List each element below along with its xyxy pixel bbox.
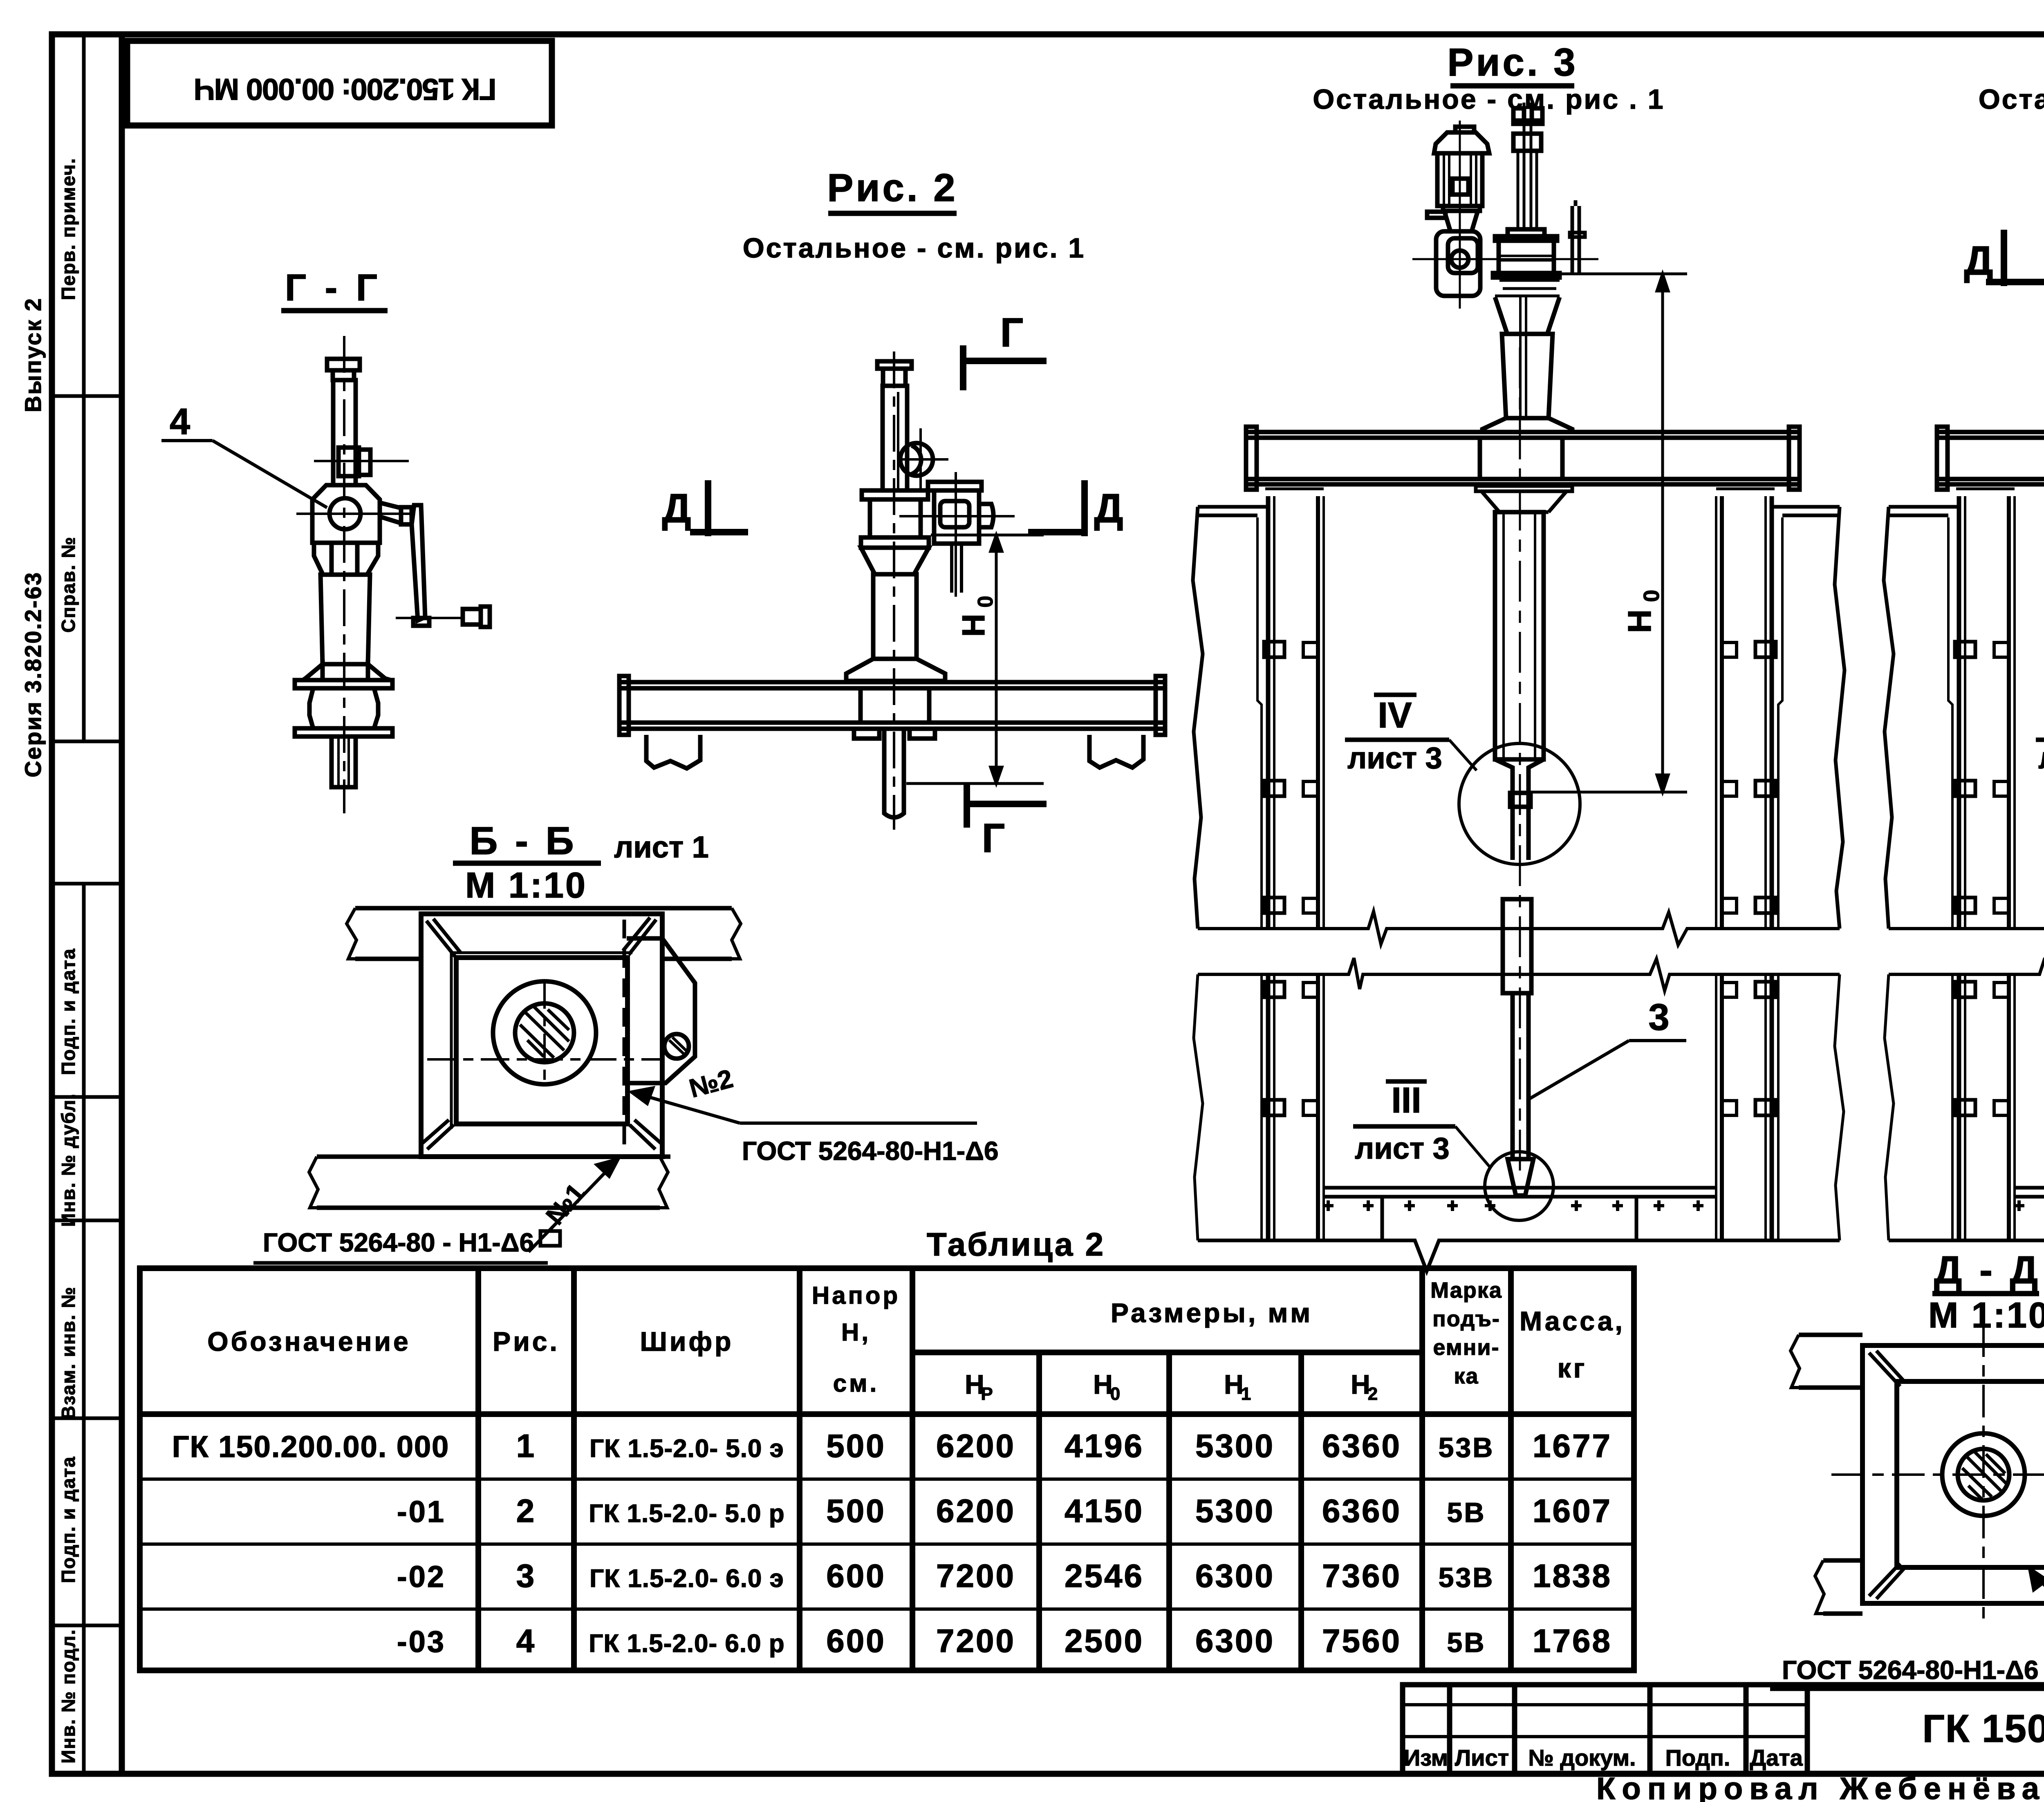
svg-text:Рис. 2: Рис. 2 — [827, 166, 957, 210]
svg-text:Изм: Изм — [1404, 1745, 1448, 1771]
table 2 data rows — [172, 1428, 1612, 1659]
Ris4 walls upper section — [1948, 489, 2044, 929]
svg-text:53В: 53В — [1439, 1432, 1495, 1463]
B-B crosshair — [427, 980, 662, 1087]
svg-text:Рис. 3: Рис. 3 — [1447, 40, 1578, 84]
D-D corner weld strokes — [1869, 1351, 2044, 1599]
svg-text:Остальное - см. рис. 1: Остальное - см. рис. 1 — [1979, 84, 2044, 115]
svg-text:4196: 4196 — [1065, 1428, 1144, 1464]
svg-text:-02: -02 — [397, 1560, 446, 1594]
svg-text:Дата: Дата — [1750, 1745, 1803, 1771]
svg-text:ГК 1.5-2.0- 6.0 э: ГК 1.5-2.0- 6.0 э — [589, 1565, 784, 1593]
svg-text:1768: 1768 — [1533, 1623, 1612, 1659]
svg-text:Подп. и дата: Подп. и дата — [58, 1456, 79, 1583]
svg-text:кг: кг — [1558, 1353, 1587, 1383]
svg-text:-01: -01 — [397, 1495, 446, 1529]
svg-text:М 1:10: М 1:10 — [1928, 1295, 2044, 1335]
svg-text:Д: Д — [662, 486, 691, 531]
D-D top slab — [1791, 1335, 2044, 1388]
Ris3 mid break band — [1198, 911, 1840, 991]
svg-text:Марка: Марка — [1430, 1278, 1502, 1303]
svg-text:Д: Д — [1964, 238, 1993, 284]
svg-text:5300: 5300 — [1195, 1428, 1275, 1464]
svg-text:Г: Г — [1000, 310, 1024, 356]
svg-text:6300: 6300 — [1195, 1558, 1275, 1594]
G-G valve centerline — [343, 336, 345, 813]
Ris3 beam — [1246, 427, 1800, 490]
B-B hole hatch — [520, 1006, 569, 1058]
D-D crosshair — [1831, 1324, 2044, 1625]
svg-text:4: 4 — [170, 401, 190, 442]
svg-text:ГК 1.5-2.0- 6.0 р: ГК 1.5-2.0- 6.0 р — [589, 1630, 784, 1658]
Ris2 valve centerline — [893, 351, 895, 830]
Ris3 bonnet and column — [1482, 297, 1572, 432]
svg-text:6200: 6200 — [936, 1493, 1015, 1529]
svg-text:6300: 6300 — [1195, 1623, 1275, 1659]
svg-text:Копировал Жебенёва: Копировал Жебенёва — [1596, 1771, 2044, 1802]
svg-text:1: 1 — [516, 1428, 536, 1464]
Ris2 H0 dimension — [906, 535, 1044, 783]
B-B square flange — [421, 914, 662, 1157]
svg-text:Подп. и дата: Подп. и дата — [58, 948, 79, 1075]
title block labels — [1404, 1745, 1803, 1771]
svg-text:5В: 5В — [1447, 1627, 1486, 1658]
D-D hole hatch — [1962, 1452, 2006, 1499]
svg-text:Таблица 2: Таблица 2 — [927, 1226, 1105, 1263]
svg-text:Д - Д: Д - Д — [1934, 1248, 2041, 1292]
svg-text:Н: Н — [1621, 609, 1658, 633]
Ris3 walls upper section — [1257, 489, 1782, 929]
Ris4 beam — [1937, 427, 2044, 490]
D-D leader N3 — [2030, 1569, 2044, 1693]
B-B side plate — [627, 938, 695, 1083]
svg-text:1: 1 — [1241, 1384, 1253, 1404]
svg-text:ГК 150.200.00. 000: ГК 150.200.00. 000 — [172, 1430, 450, 1464]
B-B weld arrow N1 — [529, 1159, 618, 1252]
svg-text:Остальное - см. рис . 1: Остальное - см. рис . 1 — [1313, 84, 1665, 115]
svg-text:6360: 6360 — [1322, 1428, 1401, 1464]
svg-text:Инв. № подл.: Инв. № подл. — [58, 1629, 79, 1763]
Ris2 valve — [846, 361, 1015, 681]
svg-text:ГК 1.5-2.0- 5.0 э: ГК 1.5-2.0- 5.0 э — [589, 1435, 784, 1463]
svg-text:III: III — [1391, 1080, 1421, 1120]
svg-text:Г - Г: Г - Г — [285, 267, 381, 309]
svg-text:см.: см. — [833, 1370, 879, 1397]
view G-G section — [161, 267, 490, 813]
view Ris.4 — [1884, 40, 2044, 1271]
svg-text:1607: 1607 — [1533, 1493, 1612, 1529]
G-G valve body — [295, 359, 490, 787]
B-B weld arrow N2 — [632, 1088, 977, 1123]
svg-text:0: 0 — [1110, 1384, 1123, 1404]
svg-text:4150: 4150 — [1065, 1493, 1144, 1529]
svg-text:Г: Г — [982, 815, 1005, 861]
svg-text:7200: 7200 — [936, 1623, 1015, 1659]
svg-text:Масса,: Масса, — [1520, 1306, 1625, 1336]
svg-text:подъ-: подъ- — [1432, 1307, 1500, 1331]
svg-text:ГК 1.5-2.0- 5.0 р: ГК 1.5-2.0- 5.0 р — [589, 1500, 784, 1528]
Ris2 brackets below beam — [646, 735, 1143, 768]
svg-text:Шифр: Шифр — [640, 1326, 734, 1357]
svg-text:Лист: Лист — [1455, 1745, 1509, 1771]
svg-text:ГК 150. 200. 00. 000 МЧ: ГК 150. 200. 00. 000 МЧ — [1922, 1707, 2044, 1751]
svg-text:ГОСТ 5264-80-Н1-Δ6: ГОСТ 5264-80-Н1-Δ6 — [1782, 1655, 2039, 1685]
D-D bottom slab — [1815, 1560, 2044, 1614]
Ris3 detail circle III — [1485, 1152, 1553, 1220]
svg-text:Обозначение: Обозначение — [207, 1326, 410, 1357]
B-B corner weld strokes — [422, 918, 661, 1149]
svg-text:53В: 53В — [1439, 1562, 1495, 1593]
B-B top slab — [347, 908, 741, 959]
svg-text:Инв. № дубл.: Инв. № дубл. — [58, 1093, 79, 1227]
svg-text:лист 3: лист 3 — [1355, 1131, 1450, 1165]
svg-text:3: 3 — [516, 1558, 536, 1594]
svg-text:1677: 1677 — [1533, 1428, 1612, 1464]
svg-text:5300: 5300 — [1195, 1493, 1275, 1529]
top-left inverted stamp box — [127, 41, 552, 125]
Ris3 H0 dimension — [1532, 274, 1687, 792]
B-B center hole — [493, 981, 596, 1084]
svg-text:2: 2 — [1368, 1384, 1380, 1404]
svg-text:Н,: Н, — [841, 1318, 871, 1346]
Ris2 beam — [619, 676, 1165, 739]
D-D center hole — [1942, 1433, 2025, 1516]
Ris3 stem centerline — [1519, 347, 1521, 1173]
svg-text:7360: 7360 — [1322, 1558, 1401, 1594]
Ris3 gear head — [1412, 121, 1598, 309]
svg-text:Взам. инв. №: Взам. инв. № — [58, 1286, 79, 1419]
Ris4 walls lower section — [1885, 974, 2044, 1240]
svg-text:3: 3 — [1648, 996, 1669, 1038]
table 2 grid — [140, 1268, 1634, 1670]
Ris3 lower stem — [1503, 899, 1533, 1195]
view Ris.2 — [619, 166, 1165, 861]
Ris3 under-beam guide — [1476, 486, 1572, 512]
svg-text:емни-: емни- — [1433, 1335, 1499, 1360]
svg-text:Н: Н — [955, 614, 991, 637]
svg-text:IV: IV — [1378, 695, 1412, 735]
B-B dashed edge line — [623, 920, 626, 1153]
svg-text:7200: 7200 — [936, 1558, 1015, 1594]
svg-text:лист 3: лист 3 — [1347, 741, 1442, 775]
svg-text:Остальное - см. рис. 1: Остальное - см. рис. 1 — [743, 233, 1085, 264]
svg-text:Д: Д — [1094, 486, 1123, 531]
Ris2 lower rod — [884, 729, 904, 817]
svg-text:600: 600 — [826, 1623, 885, 1659]
svg-text:М 1:10: М 1:10 — [465, 865, 587, 905]
svg-text:Размеры, мм: Размеры, мм — [1111, 1298, 1313, 1328]
svg-text:4: 4 — [516, 1623, 536, 1659]
B-B bottom slab — [309, 1157, 670, 1208]
svg-text:Б - Б: Б - Б — [469, 819, 577, 863]
svg-text:0: 0 — [974, 596, 997, 608]
svg-text:2500: 2500 — [1065, 1623, 1144, 1659]
title block stamp — [1403, 1685, 2044, 1774]
Ris4 floor — [1889, 1188, 2044, 1271]
svg-text:5В: 5В — [1447, 1497, 1486, 1528]
svg-text:1838: 1838 — [1533, 1558, 1612, 1594]
svg-text:500: 500 — [826, 1493, 885, 1529]
Ris3 walls lower section — [1194, 974, 1844, 1240]
svg-text:лист 3: лист 3 — [2038, 741, 2044, 775]
svg-text:6360: 6360 — [1322, 1493, 1401, 1529]
Ris3 floor plus marks — [1323, 1200, 1703, 1211]
svg-text:Выпуск 2: Выпуск 2 — [20, 297, 46, 412]
svg-text:6200: 6200 — [936, 1428, 1015, 1464]
Ris4 floor plus marks — [2014, 1200, 2044, 1211]
svg-text:2: 2 — [516, 1493, 536, 1529]
svg-text:-03: -03 — [397, 1625, 446, 1659]
svg-text:Рис.: Рис. — [493, 1326, 560, 1357]
svg-text:Напор: Напор — [812, 1282, 900, 1309]
svg-text:2546: 2546 — [1065, 1558, 1144, 1594]
Ris4 ground lines — [1884, 507, 2044, 929]
table 2 header texts — [207, 1278, 1625, 1404]
Ris3 detail circle IV — [1459, 743, 1580, 864]
svg-text:Подп.: Подп. — [1665, 1745, 1730, 1771]
detail B-B — [253, 819, 999, 1263]
Ris3 actuator column — [1493, 103, 1560, 278]
Ris3 right pipe — [1570, 200, 1585, 273]
svg-text:Серия 3.820.2-63: Серия 3.820.2-63 — [20, 571, 46, 777]
svg-text:ГК 150.200: 00.000 МЧ: ГК 150.200: 00.000 МЧ — [195, 72, 497, 106]
Ris3 floor — [1198, 1188, 1840, 1271]
svg-text:600: 600 — [826, 1558, 885, 1594]
Ris3 ground lines — [1193, 507, 1845, 929]
Ris3 electric actuator motor — [1427, 127, 1489, 231]
svg-text:Справ. №: Справ. № — [58, 536, 79, 633]
svg-text:Перв. примеч.: Перв. примеч. — [58, 158, 79, 300]
Ris3 flange stack — [1495, 280, 1560, 296]
svg-text:500: 500 — [826, 1428, 885, 1464]
view Ris.3 — [1193, 40, 1845, 1271]
svg-text:7560: 7560 — [1322, 1623, 1401, 1659]
detail D-D — [1770, 1248, 2044, 1693]
svg-text:№ докум.: № докум. — [1528, 1745, 1636, 1771]
Ris4 mid break band — [1889, 911, 2044, 991]
left margin column boxes — [52, 34, 122, 1774]
svg-text:лист 1: лист 1 — [614, 830, 709, 864]
svg-text:ка: ка — [1454, 1364, 1479, 1388]
svg-text:Р: Р — [981, 1384, 995, 1404]
svg-text:ГОСТ 5264-80-Н1-Δ6: ГОСТ 5264-80-Н1-Δ6 — [742, 1136, 999, 1166]
svg-text:ГОСТ 5264-80 - Н1-Δ6: ГОСТ 5264-80 - Н1-Δ6 — [263, 1228, 534, 1257]
svg-text:0: 0 — [1639, 590, 1664, 602]
D-D square flange — [1862, 1345, 2044, 1603]
Ris3 stem tube — [1495, 512, 1544, 860]
